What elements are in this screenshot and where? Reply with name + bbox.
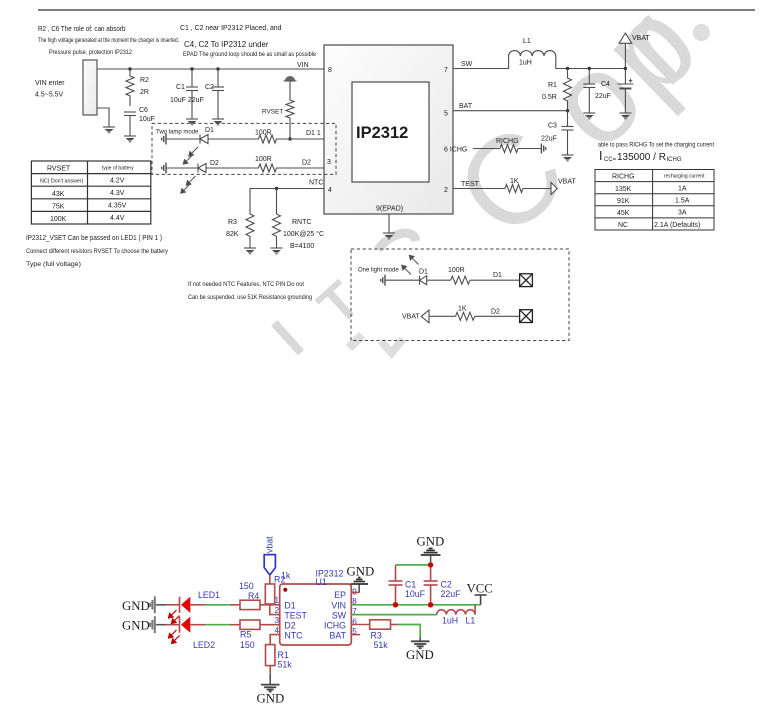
wire LED2 anode red [166,624,180,626]
svg-text:R3: R3 [228,219,237,226]
resistor R5 [240,620,260,629]
svg-text:43K: 43K [52,191,65,198]
capacitor C1 bottom [389,565,403,605]
wire one-light row1 right [470,279,520,281]
svg-text:NC: NC [618,222,628,229]
wire pin5 stub [351,634,360,636]
svg-text:C2: C2 [205,84,214,91]
wire one-light row2 left [429,315,456,317]
junction C2 on VIN [428,602,433,607]
svg-text:CC=: CC= [604,157,617,163]
node C4 top [588,67,591,70]
LED terminal D1 left [162,134,166,145]
svg-text:4: 4 [328,187,332,194]
svg-text:D2: D2 [302,160,311,167]
svg-text:22uF: 22uF [441,589,462,599]
dashed box two lamp mode [152,123,336,174]
svg-text:4.35V: 4.35V [108,202,127,209]
svg-text:GND: GND [347,565,375,579]
svg-text:GND: GND [417,535,445,549]
power flag VBAT top [619,33,632,43]
note text C1,C2 placement [180,23,316,58]
wire pin9 EP stub [351,592,359,594]
connector X D1 [520,274,533,287]
connector X D2 [520,310,533,323]
wire cap top green [396,564,431,566]
ground under C2 [212,119,224,125]
svg-text:1A: 1A [678,186,687,193]
junction C1 on VIN [393,602,398,607]
ground under C5 [619,113,631,119]
wire NTC row [250,189,324,215]
svg-text:D2: D2 [210,160,219,167]
emission arrows LED1 [169,610,180,624]
svg-text:RICHG: RICHG [496,138,519,145]
svg-text:vbat: vbat [265,536,275,553]
svg-text:1uH L1: 1uH L1 [442,615,475,625]
svg-text:Two lamp mode: Two lamp mode [156,130,199,136]
svg-text:150: 150 [240,640,255,650]
wire L1 up to VCC node [474,605,476,615]
svg-text:4.2V: 4.2V [110,178,125,185]
svg-text:Pressure pulse, protection IP2: Pressure pulse, protection IP2312 [49,49,132,56]
wire D1 to pin1 [278,138,324,140]
watermark dot [693,24,710,41]
emission arrows LED2 [169,630,180,644]
connector J1 (VIN input) [83,60,97,115]
svg-text:type of battery: type of battery [102,166,134,172]
wire one-light row1 mid [427,279,451,281]
resistor R1 [266,645,275,666]
node C1 junction [190,67,193,70]
node C2 junction [216,67,219,70]
wire SW to L1 [453,56,509,69]
wire R2 to pin2 [270,604,280,615]
svg-text:RNTC: RNTC [292,219,311,226]
svg-text:TEST: TEST [284,611,307,621]
svg-text:4.4V: 4.4V [110,215,125,222]
svg-text:I: I [599,149,602,163]
svg-text:U1: U1 [316,577,327,587]
svg-text:150: 150 [239,581,254,591]
capacitor C2 [212,69,224,119]
diode D1 [200,135,208,144]
watermark slab piece A [349,335,362,348]
resistor R2 [265,584,274,604]
svg-text:VIN: VIN [297,62,309,69]
resistor 100R (D1) [257,135,278,143]
svg-text:2: 2 [274,606,279,615]
svg-text:R3: R3 [371,631,382,641]
capacitor C4 [583,69,595,114]
svg-text:GND: GND [406,648,434,662]
svg-text:VBAT: VBAT [558,179,576,186]
capacitor C5 electrolytic at VBAT [617,69,633,114]
wire gnd to LED1 [156,604,166,606]
svg-text:1.5A: 1.5A [675,198,690,205]
ground EPAD [383,233,395,239]
svg-text:BAT: BAT [459,103,473,110]
svg-text:22uF: 22uF [541,136,557,143]
wire LED2 to green [190,624,205,626]
watermark diagonal gray text [260,0,723,368]
ground flag left LED2 [150,616,155,633]
svg-text:D2: D2 [284,621,295,631]
wire net LED1 green [205,604,230,606]
power flag VBAT at TEST [551,183,557,195]
resistor R3 (82K) [246,214,254,248]
svg-text:Type (full voltage): Type (full voltage) [26,261,81,268]
LED LED1 [180,597,191,613]
svg-text:VBAT: VBAT [402,314,420,321]
svg-text:SW: SW [332,611,347,621]
capacitor C6 [124,112,136,136]
svg-text:3A: 3A [678,210,687,217]
emission arrows one light [402,255,419,274]
resistor R4 [240,600,260,609]
label C3 value [541,123,557,143]
svg-text:1: 1 [274,596,279,605]
svg-text:ICHG: ICHG [324,621,346,631]
junction top C2 [428,562,433,567]
LED LED2 [180,617,191,633]
svg-text:R2 , C6 The role of: can absor: R2 , C6 The role of: can absorb [38,24,126,33]
svg-text:1K: 1K [510,178,519,185]
label R3 82K [226,219,239,238]
svg-text:R1: R1 [278,650,289,660]
svg-text:The high voltage generated at: The high voltage generated at the moment… [38,37,179,44]
ground under C1 [186,119,198,125]
label C4 value [595,81,611,100]
svg-text:3: 3 [274,616,279,625]
wire RNTC branch [276,189,278,215]
svg-text:C3: C3 [548,123,557,130]
resistor R3 bottom [370,620,391,629]
svg-text:1K: 1K [458,306,467,313]
power flag vbat [264,555,275,575]
node BAT/C3 junction [566,109,569,112]
wire pin6 to R3 [351,624,369,626]
capacitor C2 bottom [424,563,438,605]
wire R1 to gnd red [269,666,271,674]
wire ICHG row [473,148,500,150]
wire L1 to VBAT rail [556,43,626,69]
node R2 top junction [128,67,131,70]
svg-text:VIN enter: VIN enter [35,80,65,87]
svg-text:100K: 100K [50,216,67,223]
wire D2 row left [166,167,198,169]
svg-text:D1: D1 [419,269,428,276]
inductor L1 bottom [437,610,475,615]
svg-text:B=4100: B=4100 [290,243,314,250]
ground flag left LED1 [150,596,155,613]
ground under C6 [124,136,136,142]
label R1 0.5R [542,82,557,101]
dashed box one light mode [351,249,569,341]
wire LED1 to green [190,604,205,606]
note text VSET [26,235,169,268]
svg-text:4.5~5.5V: 4.5~5.5V [35,92,64,99]
page top rule [38,9,755,11]
svg-text:If not needed NTC Features, NT: If not needed NTC Features, NTC PIN Do n… [188,281,304,288]
wire D2 mid [206,167,257,169]
svg-text:NTC: NTC [284,631,303,641]
emission arrows D1 [183,147,198,164]
wire connector lower stub [97,108,109,127]
svg-text:8: 8 [328,67,332,74]
wire one-light row1 left [385,279,420,281]
diode D1 one-light [420,276,427,285]
svg-text:VIN: VIN [331,600,346,610]
pin1 mark dot [283,588,287,592]
wire R3 tail red [391,624,399,626]
inductor L1 [509,51,556,56]
svg-text:100R: 100R [255,156,272,163]
svg-text:R2: R2 [140,77,149,84]
svg-text:VBAT: VBAT [632,35,650,42]
IC U1 IP2312 body [280,584,352,645]
svg-text:C4: C4 [601,81,610,88]
svg-text:C4, C2 To IP2312 under: C4, C2 To IP2312 under [184,40,269,49]
svg-text:GND: GND [122,619,150,633]
watermark arc piece [378,233,416,250]
svg-text:45K: 45K [617,210,630,217]
svg-text:C1 , C2 near IP2312 Placed, an: C1 , C2 near IP2312 Placed, and [180,23,282,32]
svg-text:82K: 82K [226,231,239,238]
label C6 value [139,107,155,123]
svg-text:EP: EP [334,590,346,600]
ground symbol pin9 (flipped) [351,578,369,585]
svg-text:4: 4 [274,626,279,635]
capacitor C3 [562,111,574,155]
resistor 100R one-light [451,276,470,284]
svg-text:D1: D1 [284,600,295,610]
wire pin9 gnd gray [358,585,360,593]
svg-text:51k: 51k [374,640,389,650]
svg-text:10uF: 10uF [139,116,155,123]
svg-text:D2: D2 [491,309,500,316]
svg-text:SW: SW [461,61,473,68]
svg-text:D1 1: D1 1 [306,130,321,137]
svg-text:R5: R5 [240,630,251,640]
svg-text:C1: C1 [176,84,185,91]
svg-text:9(EPAD): 9(EPAD) [376,206,403,213]
svg-text:L1: L1 [523,38,531,45]
label VIN enter [35,80,65,99]
wire gnd to LED2 [156,624,166,626]
svg-text:EPAD The ground loop should be: EPAD The ground loop should be as small … [183,51,316,58]
label L1 value [519,38,532,67]
svg-text:1k: 1k [281,571,291,581]
svg-text:TEST: TEST [461,181,480,188]
table RICHG [595,170,714,231]
svg-text:recharging current: recharging current [664,174,705,180]
wire R5 to pin3 [260,624,280,626]
resistor R1 (0.5R) [564,69,572,111]
svg-text:C1: C1 [405,580,416,590]
emission arrows D2 [181,176,196,193]
svg-text:able to pass RICHG To set the: able to pass RICHG To set the charging c… [598,142,714,149]
svg-text:C2: C2 [441,580,452,590]
wire D2 to pin3 [278,167,324,169]
power bar VCC [475,595,487,605]
svg-text:1uH: 1uH [519,60,532,67]
wire pin4 to R1 [270,635,280,645]
svg-text:2: 2 [444,187,448,194]
svg-text:NC( Don't answer): NC( Don't answer) [40,179,84,185]
resistor 100R (D2) [257,164,278,172]
wire net LED2 green [205,624,230,626]
svg-text:6 ICHG: 6 ICHG [444,147,467,154]
svg-text:BAT: BAT [330,631,347,641]
ground symbol R3 [411,641,430,648]
svg-text:5: 5 [444,111,448,118]
resistor R2 [126,69,134,106]
LED terminal D2 left [162,163,166,174]
svg-text:135000 / R: 135000 / R [617,152,666,163]
svg-text:LED1: LED1 [198,590,220,600]
note text NTC [188,281,312,301]
svg-text:T: T [307,270,372,337]
svg-text:NTC: NTC [309,180,323,187]
svg-text:C6: C6 [139,107,148,114]
svg-text:3: 3 [327,159,331,166]
resistor RNTC [273,214,281,248]
svg-text:2R: 2R [140,89,149,96]
table RVSET text [40,166,134,224]
svg-text:GND: GND [257,692,285,706]
svg-text:7: 7 [444,67,448,74]
label R2 value [140,77,149,96]
svg-text:IP2312_VSET Can be passed on L: IP2312_VSET Can be passed on LED1 ( PIN … [26,235,162,242]
formula Icc [599,149,682,163]
svg-text:51k: 51k [278,660,293,670]
wire D1 row left [166,138,200,140]
IC IP2312 inner die [352,82,429,182]
svg-text:LED2: LED2 [193,640,215,650]
power dome at RVSET top [284,76,297,81]
wire R4 to pin1 [260,604,280,606]
svg-text:I: I [260,309,315,368]
ground under RNTC [271,248,283,254]
svg-text:ICHG: ICHG [667,157,682,163]
svg-text:0.5R: 0.5R [542,94,557,101]
ground symbol under R1 [261,685,280,692]
table RVSET [31,161,150,224]
svg-text:91K: 91K [617,198,630,205]
ground under C4 [583,113,595,119]
IC U? IP2312 outer body [324,45,453,214]
ground under connector [103,127,115,133]
wire TEST tail [523,188,551,190]
svg-text:22uF: 22uF [595,93,611,100]
wire top gnd gray [430,556,432,564]
svg-text:R4: R4 [248,591,259,601]
resistor RICHG [500,145,518,153]
svg-text:D1: D1 [205,127,214,134]
diode D2 [198,164,206,173]
wire vbat to R2 [269,575,271,584]
svg-text:RVSET: RVSET [262,109,283,116]
svg-text:RICHG: RICHG [612,174,635,181]
svg-text:100R: 100R [448,267,465,274]
wire VIN net green [351,604,480,606]
wire R3 to gnd green [398,625,420,638]
svg-text:IP2312: IP2312 [356,124,408,142]
svg-text:Can be suspended, use 51K Resi: Can be suspended, use 51K Resistance gro… [188,294,312,301]
wire EPAD stem [388,214,390,233]
wire VIN rail [97,68,324,70]
svg-text:10uF: 10uF [405,589,426,599]
svg-text:RVSET: RVSET [47,166,71,173]
label RNTC values [283,219,324,250]
svg-text:GND: GND [122,599,150,613]
svg-text:75K: 75K [52,203,65,210]
wire R1 gnd gray [269,673,271,684]
svg-text:100R: 100R [255,130,272,137]
wire R3 gnd gray [419,638,421,642]
svg-text:10uF 22uF: 10uF 22uF [170,97,204,104]
svg-text:2.1A (Defaults): 2.1A (Defaults) [654,222,700,229]
svg-text:135K: 135K [615,186,632,193]
resistor 1K TEST [505,185,523,193]
svg-text:VCC: VCC [467,582,493,596]
wire TEST row [453,188,505,190]
node R1 top [566,67,569,70]
ground symbol top (flipped) [421,548,441,555]
wire LED1 anode red [166,604,180,606]
node RVSET/D1 junction [288,137,291,140]
resistor 1K one-light [456,312,475,320]
node VBAT column [624,67,627,70]
svg-text:One light mode: One light mode [358,268,399,274]
node NTC junction [275,187,278,190]
svg-text:100K@25 °C: 100K@25 °C [283,230,324,238]
svg-text:R1: R1 [548,82,557,89]
wire D1 mid [208,138,257,140]
wire SW net green [351,614,436,616]
note text R2,C6 role [38,24,179,56]
capacitor C1 [186,69,198,119]
wire one-light row2 right [475,315,520,317]
ground under C3 [562,155,574,161]
wire BAT row [453,110,568,112]
ground under R3 [244,248,256,254]
svg-text:4.3V: 4.3V [110,190,125,197]
resistor RVSET [286,81,294,139]
table RICHG text [612,174,705,230]
svg-text:Connect different resistors RV: Connect different resistors RVSET To cho… [26,248,169,255]
LED terminal one-light left [381,275,385,286]
power flag VBAT one-light [421,310,429,323]
wire RICHG tail [518,148,541,150]
terminal RICHG end [541,144,545,154]
svg-text:D1: D1 [493,272,502,279]
watermark slab piece B [381,339,403,353]
